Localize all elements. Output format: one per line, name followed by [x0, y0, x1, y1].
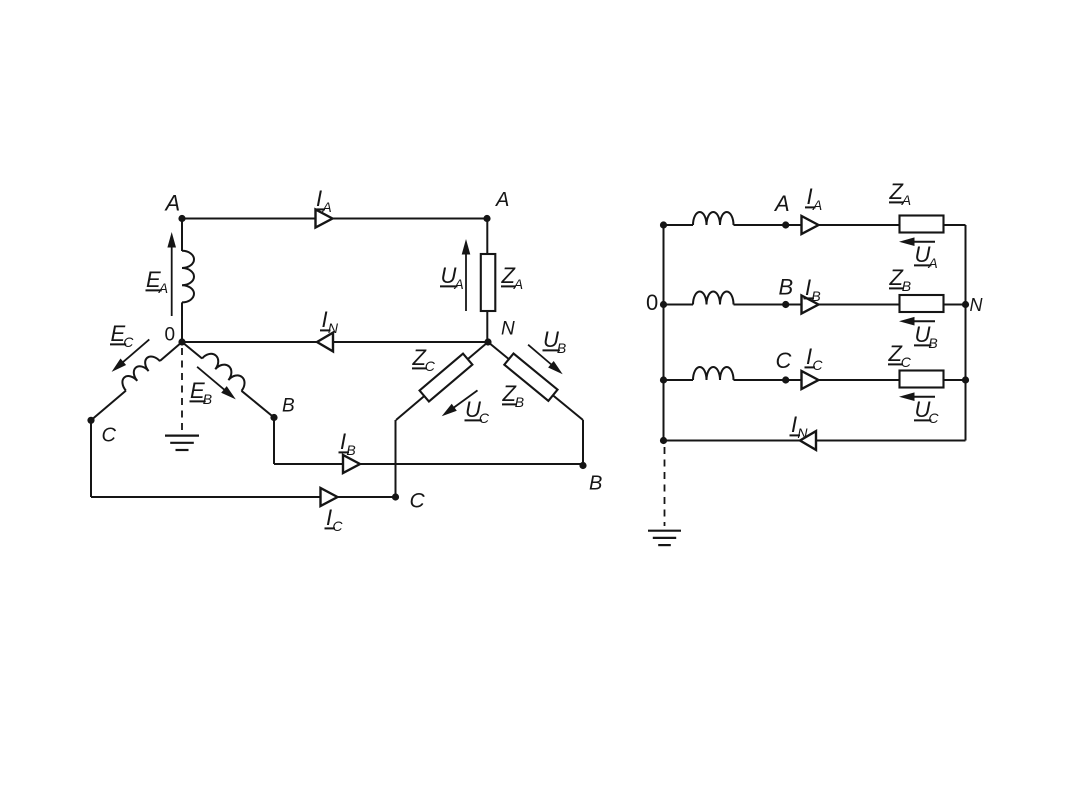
winding E_A (source phase A coil) — [182, 251, 194, 303]
node 0 (source neutral point) — [178, 338, 185, 345]
wire: phase B line, vertical drop from source node B — [273, 418, 275, 465]
voltage arrow U_B (right circuit) — [899, 317, 935, 326]
wire: source winding leg B upper diagonal from node 0 — [182, 342, 202, 359]
label U_B (right circuit) — [914, 322, 938, 351]
svg-text:B: B — [557, 340, 566, 356]
current arrow I_B (right circuit) — [802, 296, 819, 314]
wire: load leg B diagonal from node N — [488, 342, 583, 420]
voltage arrow U_B (left circuit) — [528, 345, 563, 375]
wire: phase A line from source terminal A to load terminal A — [182, 218, 487, 220]
wire: load leg C diagonal from node N — [396, 342, 488, 420]
wire: load leg B vertical down to node B — [582, 420, 584, 466]
label A (left load terminal) — [495, 189, 509, 211]
svg-text:B: B — [203, 391, 212, 407]
label Z_B (right circuit) — [889, 265, 912, 294]
svg-text:I: I — [806, 344, 812, 369]
svg-text:C: C — [123, 334, 134, 350]
impedance Z_C (right circuit) — [900, 371, 944, 388]
label E_A — [146, 267, 169, 296]
node dot on right bus at row C — [962, 376, 969, 383]
svg-text:B: B — [515, 394, 524, 410]
node A (right circuit branch node) — [782, 221, 789, 228]
wire: phase C line horizontal to load node C — [91, 496, 396, 498]
node B (source terminal B) — [270, 414, 277, 421]
label I_C (left circuit) — [325, 505, 344, 534]
dashed earth lead from node 0 — [181, 348, 183, 431]
svg-text:I: I — [326, 505, 332, 530]
ground (left circuit) — [165, 436, 199, 450]
wire: right bus (node N rail, right circuit) — [965, 225, 967, 441]
label I_B (right circuit) — [804, 275, 821, 304]
node dot B on left bus (right circuit) — [660, 301, 667, 308]
label C (source terminal C) — [102, 425, 117, 447]
label Z_A (right circuit) — [889, 179, 912, 208]
label Z_C (right circuit) — [888, 341, 912, 370]
node C (right circuit branch node) — [782, 376, 789, 383]
node dot N on right bus at row B — [962, 301, 969, 308]
svg-text:A: A — [453, 276, 463, 292]
wire: load leg C vertical down to node C — [395, 420, 397, 497]
wire: phase B branch, bus to winding — [664, 304, 694, 306]
svg-text:C: C — [425, 358, 436, 374]
node B (load terminal B, far right) — [579, 462, 586, 469]
label C (load terminal C) — [410, 490, 426, 513]
label E_B — [190, 378, 213, 407]
svg-text:B: B — [346, 442, 355, 458]
wire: phase B branch, winding to impedance — [734, 304, 900, 306]
wire: phase A branch, bus to winding — [664, 224, 694, 226]
current arrow I_A (left circuit) — [316, 210, 333, 228]
label A (left source terminal) — [164, 191, 181, 216]
wire: phase A branch, impedance to right bus — [944, 224, 966, 226]
node A (left load terminal) — [483, 215, 490, 222]
wire: source winding leg A lower segment to node 0 — [181, 302, 183, 342]
voltage arrow U_C (left circuit) — [442, 390, 478, 416]
wire: neutral return 0-N (right circuit bottom) — [664, 440, 966, 442]
label Z_A (left circuit) — [501, 263, 524, 292]
svg-text:A: A — [164, 191, 181, 216]
impedance Z_B (right circuit) — [900, 295, 944, 312]
wire: source winding leg C upper diagonal from node 0 — [160, 342, 182, 361]
wire: phase C line, vertical drop from source node C — [90, 420, 92, 497]
svg-text:I: I — [807, 184, 813, 209]
current arrow I_N (right circuit) — [800, 431, 816, 450]
svg-text:A: A — [812, 197, 822, 213]
ground (right circuit) — [648, 531, 681, 545]
svg-text:B: B — [902, 278, 911, 294]
svg-text:C: C — [332, 518, 343, 534]
svg-text:C: C — [102, 425, 117, 447]
svg-text:N: N — [328, 320, 339, 336]
winding (source coil, phase B, right circuit) — [693, 292, 734, 305]
impedance Z_C (left circuit, angled box) — [420, 354, 473, 402]
current arrow I_C (left circuit) — [321, 488, 338, 506]
dashed earth lead from bottom bus (right circuit) — [664, 447, 666, 526]
label B (source terminal B) — [282, 396, 295, 417]
node C (source terminal C) — [87, 417, 94, 424]
node N (load neutral point, left circuit) — [484, 338, 491, 345]
wire: source winding leg C lower diagonal to node C — [91, 391, 126, 421]
svg-text:N: N — [797, 425, 808, 441]
impedance Z_A (right circuit) — [900, 216, 944, 233]
label U_A (right circuit) — [914, 242, 938, 271]
impedance Z_A (left circuit, vertical box) — [481, 254, 496, 311]
winding E_B (source phase B coil) — [202, 350, 248, 391]
label Z_B (left circuit) — [502, 381, 525, 410]
svg-text:C: C — [812, 357, 823, 373]
current arrow I_C (right circuit) — [802, 371, 819, 389]
label 0 (source neutral point) — [165, 325, 176, 346]
svg-text:C: C — [928, 410, 939, 426]
wire: phase C branch, bus to winding — [664, 379, 694, 381]
svg-text:A: A — [158, 280, 168, 296]
label I_A (right circuit) — [805, 184, 822, 213]
svg-text:B: B — [589, 473, 602, 495]
wire: neutral 0-N (left circuit) — [182, 341, 488, 343]
svg-text:N: N — [970, 295, 984, 315]
wire: source winding leg B lower diagonal to node B — [242, 391, 275, 418]
svg-text:A: A — [495, 189, 509, 211]
label U_C (right circuit) — [914, 397, 939, 426]
winding E_C (source phase C coil) — [119, 353, 160, 391]
node B (right circuit branch node) — [782, 301, 789, 308]
node C (load terminal C) — [392, 493, 399, 500]
svg-text:A: A — [901, 192, 911, 208]
winding (source coil, phase C, right circuit) — [693, 367, 734, 380]
svg-text:B: B — [282, 396, 295, 417]
svg-text:I: I — [805, 275, 811, 300]
label C (right circuit) — [776, 348, 792, 373]
voltage arrow U_A (left circuit) — [462, 239, 471, 311]
wire: load leg A from Z_A down to node N — [486, 311, 488, 342]
svg-text:N: N — [501, 319, 515, 340]
label I_N (right circuit) — [790, 412, 809, 441]
svg-text:A: A — [927, 255, 937, 271]
wire: source winding leg A (vertical) upper segment — [181, 219, 183, 252]
svg-text:I: I — [791, 412, 797, 437]
wire: load leg A from terminal A down to Z_A — [486, 219, 488, 256]
label B (load terminal B) — [589, 473, 602, 495]
winding (source coil, phase A, right circuit) — [693, 212, 734, 225]
impedance Z_B (left circuit, angled box) — [504, 353, 557, 400]
label A (right circuit) — [773, 191, 790, 216]
label U_A (left circuit) — [440, 263, 464, 292]
label Z_C (left circuit) — [412, 345, 436, 374]
label I_N (left circuit) — [320, 307, 339, 336]
current arrow I_B (left circuit) — [343, 455, 360, 473]
label U_B (left circuit) — [543, 327, 567, 356]
svg-text:A: A — [773, 191, 790, 216]
voltage arrow U_C (right circuit) — [899, 392, 935, 401]
label I_C (right circuit) — [805, 344, 824, 373]
svg-text:I: I — [322, 307, 328, 332]
svg-text:C: C — [479, 410, 490, 426]
wire: phase C branch, impedance to right bus — [944, 379, 966, 381]
svg-text:0: 0 — [646, 290, 658, 315]
node dot bottom-left bus junction (right circuit) — [660, 437, 667, 444]
wire: phase A branch, winding to impedance — [734, 224, 900, 226]
current arrow I_N (left circuit) — [317, 333, 333, 352]
label I_B (left circuit) — [339, 429, 356, 458]
wire: phase C branch, winding to impedance — [734, 379, 900, 381]
EMF arrow E_B — [197, 367, 236, 400]
node dot A on left bus (right circuit) — [660, 221, 667, 228]
svg-text:0: 0 — [165, 325, 176, 346]
label I_A (left circuit) — [315, 186, 332, 215]
node dot C on left bus (right circuit) — [660, 376, 667, 383]
label B (right circuit) — [779, 275, 794, 300]
svg-text:C: C — [776, 348, 792, 373]
svg-text:B: B — [811, 288, 820, 304]
wire: phase B branch, impedance to right bus — [944, 304, 966, 306]
svg-text:C: C — [901, 354, 912, 370]
wire: phase B line horizontal to load node B — [274, 463, 583, 465]
label E_C — [110, 321, 134, 350]
label U_C (left circuit) — [465, 397, 490, 426]
svg-text:A: A — [513, 276, 523, 292]
svg-text:I: I — [340, 429, 346, 454]
label N (left circuit) — [501, 319, 515, 340]
voltage arrow U_A (right circuit) — [899, 237, 935, 246]
wire: left bus (node 0 rail, right circuit) — [663, 225, 665, 441]
node A (left source terminal) — [178, 215, 185, 222]
svg-text:A: A — [321, 199, 331, 215]
label 0 (right circuit neutral rail) — [646, 290, 658, 315]
svg-text:C: C — [410, 490, 426, 513]
svg-text:I: I — [316, 186, 322, 211]
EMF arrow E_C — [112, 339, 150, 372]
current arrow I_A (right circuit) — [802, 216, 819, 234]
label N (right circuit load neutral) — [970, 295, 984, 315]
svg-text:B: B — [779, 275, 794, 300]
EMF arrow E_A — [167, 232, 176, 316]
svg-text:B: B — [928, 335, 937, 351]
